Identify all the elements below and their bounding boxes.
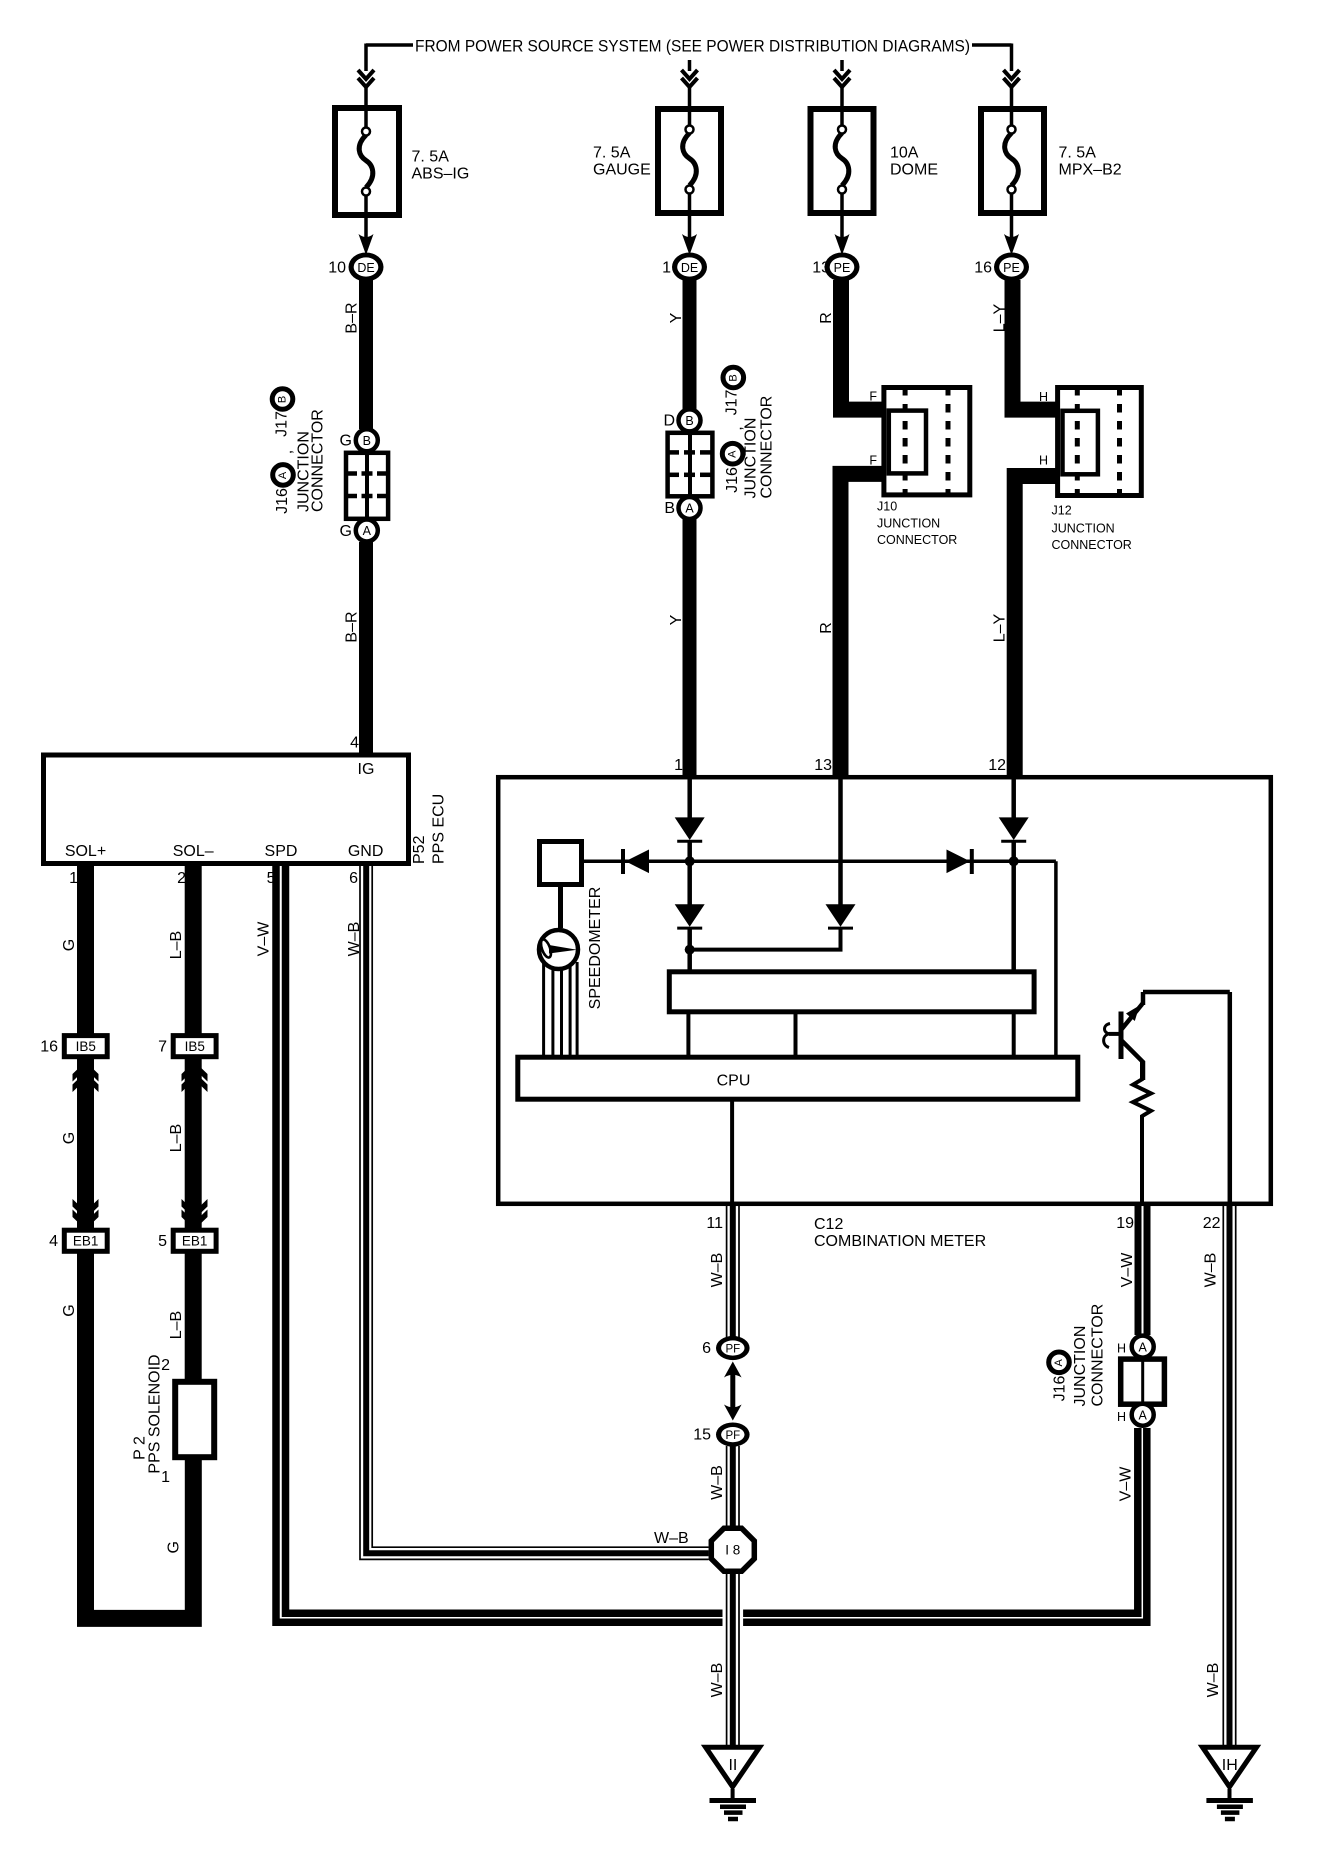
wire: pin 12 column from dot down to display rectangle (1011, 861, 1016, 970)
arrow into fuse GAUGE (682, 70, 698, 87)
arrow into fuse ABS-IG (358, 70, 374, 87)
speedometer dial (539, 884, 578, 969)
wire: power source header line left segment (366, 43, 413, 47)
svg-text:SPEEDOMETER: SPEEDOMETER (587, 887, 604, 1010)
diode D1 (pin 1 column) (675, 817, 705, 841)
connector PE pin 16 (974, 253, 1029, 282)
svg-text:PPS SOLENOID: PPS SOLENOID (147, 1354, 164, 1473)
svg-text:CONNECTOR: CONNECTOR (310, 409, 327, 512)
svg-text:H: H (1039, 453, 1048, 467)
svg-text:SOL–: SOL– (173, 843, 214, 860)
svg-text:16: 16 (974, 260, 992, 277)
node: junction dot bus/pin12 (1009, 856, 1019, 866)
svg-text:R: R (818, 312, 835, 324)
svg-text:B: B (363, 434, 371, 448)
svg-text:L–B: L–B (168, 931, 185, 959)
svg-text:J16: J16 (1052, 1376, 1069, 1402)
svg-text:R: R (818, 622, 835, 634)
svg-text:L–B: L–B (168, 1124, 185, 1152)
ground IH (1203, 1747, 1257, 1819)
resistor R (meter) (1133, 1062, 1151, 1123)
connector PE pin 13 (812, 253, 859, 282)
wire: D4 down and left to pin-1 column (690, 928, 841, 950)
combination meter C12 box (498, 777, 1271, 1204)
wire label W-B (above ground II) (709, 1663, 726, 1698)
node: C12 COMBINATION METER caption (814, 1216, 986, 1250)
svg-text:V–W: V–W (1118, 1466, 1135, 1502)
svg-text:J17: J17 (274, 411, 291, 437)
svg-text:W–B: W–B (1205, 1663, 1222, 1698)
diode D6 (points right) (947, 849, 972, 874)
svg-text:B–R: B–R (344, 611, 361, 642)
svg-text:7. 5A: 7. 5A (593, 145, 631, 162)
wire: arrow to fuse DOME (840, 85, 844, 107)
svg-text:G: G (340, 523, 352, 540)
svg-text:15: 15 (693, 1427, 711, 1444)
speedometer coil square (540, 842, 582, 885)
diode D3 (pin 1 column lower) (675, 861, 705, 950)
wire B-R: junction connector to ECU pin 4 (359, 542, 373, 754)
svg-text:J12: J12 (1052, 504, 1072, 518)
wire label L-B (below EB1) (168, 1311, 185, 1339)
wire W-B: ECU GND pin 6 to I8 (triple-line wire) (360, 861, 709, 1559)
svg-text:4: 4 (49, 1233, 58, 1250)
svg-text:11: 11 (706, 1215, 723, 1232)
svg-text:F: F (869, 390, 877, 404)
svg-text:IB5: IB5 (76, 1039, 96, 1054)
wire label Y lower (668, 614, 685, 625)
fuse 7.5A GAUGE (593, 109, 721, 213)
wire: drop to fuse DOME (840, 60, 844, 71)
junction connector J16 (A) right column (1117, 1336, 1164, 1426)
svg-text:1: 1 (662, 260, 671, 277)
svg-text:W–B: W–B (654, 1530, 689, 1547)
wire L-Y: J12 to meter pin 12, with jog (1015, 476, 1056, 777)
wire label G (between IB5 and EB1) (61, 1132, 78, 1144)
connector EB1 pin 4 (49, 1230, 107, 1251)
ground II (706, 1747, 760, 1819)
connector PF pin 6 (702, 1336, 750, 1360)
wire: meter pin 1 to diode D1 (687, 777, 692, 818)
arrow (female) below PF pin 6 (724, 1362, 742, 1378)
svg-text:W–B: W–B (709, 1253, 726, 1288)
wire label W-B (below meter pin 11) (709, 1253, 726, 1288)
wire Y: junction connector to meter pin 1 (683, 519, 697, 777)
wire V-W: ECU SPD pin 5 double wire inner run to right junction connector (286, 861, 1138, 1613)
P.2 PPS SOLENOID box (132, 1354, 215, 1485)
wire label W-B (below ECU GND) (346, 922, 363, 957)
svg-text:13: 13 (814, 757, 832, 774)
svg-text:JUNCTION: JUNCTION (877, 517, 940, 531)
node: SPEEDOMETER rotated label (587, 887, 604, 1010)
svg-text:B–R: B–R (344, 302, 361, 333)
wire: meter pin 12 to diode D2 (1011, 777, 1016, 818)
svg-text:L–Y: L–Y (992, 613, 1009, 642)
connector PF pin 15 (693, 1423, 749, 1447)
wire label G (SOL+ below ECU) (61, 939, 78, 951)
wire label W-B (below meter pin 22) (1203, 1253, 1220, 1288)
svg-text:Y: Y (668, 614, 685, 625)
diode D4 (pin 13 column) (826, 904, 856, 928)
svg-text:A: A (363, 524, 372, 538)
svg-text:F: F (869, 454, 877, 468)
svg-text:G: G (61, 1304, 78, 1316)
wire: fuse GAUGE to connector DE (688, 212, 692, 240)
junction connector J10 (869, 387, 969, 547)
svg-text:D: D (663, 413, 675, 430)
arrow into connector PE pin 16 (1004, 234, 1019, 255)
wire label L-B (between IB5 and EB1) (168, 1124, 185, 1152)
connector DE pin 1 (662, 253, 707, 282)
svg-text:J17: J17 (724, 390, 741, 416)
wire: resistor to meter pin 19 (1140, 1122, 1144, 1204)
svg-text:10: 10 (328, 260, 346, 277)
svg-text:12: 12 (988, 757, 1006, 774)
wire label B-R upper (344, 302, 361, 333)
wire label W-B (above ground IH) (1205, 1663, 1222, 1698)
svg-text:H: H (1117, 1410, 1126, 1424)
svg-text:I 8: I 8 (725, 1543, 740, 1558)
wire: fuse ABS-IG to connector DE (364, 214, 368, 240)
svg-text:PPS ECU: PPS ECU (431, 794, 448, 864)
wire: double V-W from meter pin 19 to junction connector (1138, 1206, 1147, 1335)
fuse 10A DOME (811, 109, 939, 213)
svg-text:19: 19 (1116, 1215, 1134, 1232)
wire label B-R lower (344, 611, 361, 642)
wire: drop to fuse ABS-IG (364, 44, 368, 72)
arrow into fuse DOME (834, 70, 850, 87)
wire: rectangle to CPU (right) (1012, 1014, 1016, 1056)
svg-text:DE: DE (357, 261, 374, 275)
svg-text:G: G (61, 939, 78, 951)
wire: D2 to bus (1011, 841, 1016, 861)
wire: meter pin 13 to diode D4 (838, 777, 843, 905)
svg-text:DE: DE (681, 261, 698, 275)
svg-text:CONNECTOR: CONNECTOR (759, 396, 776, 499)
wire: arrow to fuse ABS-IG (364, 85, 368, 106)
svg-text:FROM POWER SOURCE SYSTEM (SEE: FROM POWER SOURCE SYSTEM (SEE POWER DIST… (415, 37, 970, 56)
wire: drop to fuse GAUGE (688, 60, 692, 71)
arrow into connector DE pin 1 (682, 234, 697, 255)
svg-text:P52: P52 (411, 835, 428, 864)
svg-text:1: 1 (674, 757, 683, 774)
wire W-B: meter pin 11 to PF pin 6 (triple-line) (727, 1206, 739, 1339)
wire label G (solenoid pin 1 riser) (166, 1541, 183, 1553)
svg-text:B: B (664, 500, 675, 517)
svg-text:A: A (1139, 1408, 1148, 1422)
arrow pair (female) below IB5 pin 7 (182, 1062, 208, 1093)
node: J16(A),J17(B) rotated label (left) (272, 389, 327, 514)
svg-text:1: 1 (69, 870, 78, 887)
svg-text:10A: 10A (890, 145, 919, 162)
svg-text:II: II (728, 1757, 737, 1774)
wire label Y upper (668, 312, 685, 323)
arrow into fuse MPX-B2 (1004, 70, 1020, 87)
wire: drop to fuse MPX-B2 (1010, 44, 1014, 72)
CPU box (518, 1057, 1078, 1099)
connector I8 (octagon) (711, 1528, 754, 1571)
svg-text:A: A (685, 502, 694, 516)
svg-text:A: A (727, 450, 739, 458)
wire label W-B (above I8) (709, 1465, 726, 1500)
svg-text:J16: J16 (274, 488, 291, 514)
arrow (male) above PF pin 15 (724, 1405, 742, 1421)
svg-text:SOL+: SOL+ (65, 843, 106, 860)
wire: rectangle to CPU (middle) (794, 1014, 798, 1056)
svg-text:IG: IG (358, 761, 375, 778)
diode D2 (pin 12 column) (999, 817, 1029, 841)
wire R: J10 to meter pin 13, with jog (841, 474, 883, 777)
wire: horizontal bus from square (584, 860, 1056, 864)
svg-text:7. 5A: 7. 5A (412, 149, 450, 166)
wire: right rail down to meter pin 22 (1228, 992, 1233, 1204)
wire label V-W (below right junction connector) (1118, 1466, 1135, 1502)
arrow into connector DE pin 10 (359, 234, 374, 255)
display rectangle inside meter (669, 972, 1034, 1012)
svg-text:JUNCTION: JUNCTION (743, 418, 760, 499)
wire Y: DE to junction connector (upper) (683, 280, 697, 409)
svg-text:CPU: CPU (717, 1073, 751, 1090)
wire label R upper (818, 312, 835, 324)
svg-text:4: 4 (350, 735, 359, 752)
fuse 7.5A MPX-B2 (981, 109, 1122, 213)
wire label L-B (below ECU) (168, 931, 185, 959)
node: J16 (A) rotated label (1049, 1304, 1107, 1407)
wire: rectangle to CPU (left) (686, 1014, 690, 1056)
wire label L-Y upper (992, 303, 1009, 332)
wire W-B: meter pin 22 to ground IH (triple-line) (1223, 1206, 1235, 1746)
connector EB1 pin 5 (158, 1230, 216, 1251)
node: J16(A),J17(B) rotated label (right of second connector) (722, 367, 775, 498)
svg-text:16: 16 (40, 1039, 58, 1056)
svg-text:PE: PE (834, 261, 851, 275)
node: junction dot bus/pin1 (685, 856, 695, 866)
wire label V-W (below ECU SPD) (256, 921, 273, 957)
svg-text:7: 7 (158, 1039, 167, 1056)
svg-text:W–B: W–B (709, 1465, 726, 1500)
node: junction dot D3 output (685, 945, 695, 955)
arrow pair (male) above EB1 pin 4 (73, 1199, 99, 1230)
connector IB5 pin 16 (40, 1036, 107, 1057)
svg-text:GAUGE: GAUGE (593, 162, 651, 179)
wire label L-Y lower (992, 613, 1009, 642)
svg-text:B: B (727, 374, 739, 381)
wire: power source header line right segment (972, 43, 1012, 47)
wire: between PF connectors (730, 1370, 735, 1412)
svg-text:A: A (1053, 1358, 1065, 1366)
wire B-R: DE to junction connector (upper) (359, 280, 373, 429)
junction connector J12 (1039, 387, 1141, 552)
diode D5 (points left toward speedometer) (623, 849, 649, 874)
svg-text:JUNCTION: JUNCTION (1072, 1326, 1089, 1407)
svg-text:Y: Y (668, 312, 685, 323)
svg-text:H: H (1039, 390, 1048, 404)
wire: speedometer leads to CPU (5 lines) (544, 962, 578, 1056)
wire R: PE to J10 (upper), with jog (841, 280, 882, 410)
svg-text:B: B (685, 414, 693, 428)
svg-text:EB1: EB1 (73, 1234, 99, 1249)
svg-text:L–Y: L–Y (992, 303, 1009, 332)
wire: dot to display rectangle (687, 950, 692, 970)
svg-text:B: B (277, 396, 289, 403)
svg-text:H: H (1117, 1341, 1126, 1355)
junction connector J16/J17 (left column) (340, 429, 389, 541)
junction connector J16/J17 (second column) (663, 409, 712, 519)
svg-text:IH: IH (1222, 1757, 1238, 1774)
svg-text:G: G (166, 1541, 183, 1553)
wire: D1 to bus (687, 841, 692, 861)
svg-text:6: 6 (349, 870, 358, 887)
wire: fuse MPX-B2 to connector PE (1010, 212, 1014, 240)
svg-text:GND: GND (348, 843, 384, 860)
svg-text:PE: PE (1003, 261, 1020, 275)
svg-text:IB5: IB5 (185, 1039, 205, 1054)
svg-text:J16: J16 (724, 467, 741, 493)
svg-text:22: 22 (1203, 1215, 1221, 1232)
svg-text:W–B: W–B (709, 1663, 726, 1698)
svg-text:DOME: DOME (890, 162, 938, 179)
wire L-B: ECU SOL- pin 2 down to solenoid pin 2 (185, 862, 202, 1380)
transistor Q (meter output) (1104, 992, 1143, 1080)
arrow pair (male) above EB1 pin 5 (182, 1199, 208, 1230)
fuse 7.5A ABS-IG (335, 108, 469, 215)
svg-text:C12: C12 (814, 1216, 843, 1233)
svg-text:W–B: W–B (1203, 1253, 1220, 1288)
svg-text:A: A (277, 471, 289, 479)
svg-text:PF: PF (725, 1343, 740, 1355)
svg-text:V–W: V–W (256, 921, 273, 957)
svg-text:CONNECTOR: CONNECTOR (877, 533, 957, 547)
svg-text:A: A (1139, 1340, 1148, 1354)
svg-text:SPD: SPD (265, 843, 298, 860)
svg-text:L–B: L–B (168, 1311, 185, 1339)
svg-text:EB1: EB1 (182, 1234, 208, 1249)
svg-text:G: G (340, 433, 352, 450)
svg-text:COMBINATION METER: COMBINATION METER (814, 1233, 986, 1250)
wire: arrow to fuse MPX-B2 (1010, 85, 1014, 107)
wire G: ECU SOL+ pin 1 down, U-turn, up to solenoid pin 1 (86, 862, 194, 1618)
ECU P52 PPS ECU box (44, 735, 448, 888)
wire: arrow to fuse GAUGE (688, 85, 692, 107)
svg-text:J10: J10 (877, 500, 897, 514)
wire: bus right corner down to CPU (1054, 861, 1058, 1056)
wire V-W: ECU SPD pin 5 double wire outer run to right junction connector (276, 861, 1147, 1622)
svg-text:,: , (279, 450, 296, 454)
arrow into connector PE pin 13 (835, 234, 850, 255)
svg-text:CONNECTOR: CONNECTOR (1089, 1304, 1106, 1407)
wire L-Y: PE to J12 (upper), with jog (1013, 280, 1057, 410)
svg-text:MPX–B2: MPX–B2 (1059, 162, 1122, 179)
svg-text:ABS–IG: ABS–IG (412, 166, 470, 183)
svg-text:G: G (61, 1132, 78, 1144)
wire label R lower (818, 622, 835, 634)
svg-text:7. 5A: 7. 5A (1059, 145, 1097, 162)
wire W-B: PF pin 15 to I8 (triple-line) (727, 1446, 739, 1528)
connector DE pin 10 (328, 253, 383, 282)
svg-text:PF: PF (725, 1430, 740, 1442)
wire: CPU to meter pin 11 (730, 1099, 734, 1204)
svg-text:6: 6 (702, 1340, 711, 1357)
wire W-B: I8 down to ground II (triple-line, crosses V-W runs) (723, 1571, 744, 1746)
wire: fuse DOME to connector PE (840, 212, 844, 240)
wire: transistor emitter top rail (1143, 990, 1230, 995)
wire label V-W (below meter pin 19) (1119, 1252, 1136, 1288)
connector IB5 pin 7 (158, 1036, 216, 1057)
svg-text:13: 13 (812, 260, 830, 277)
arrow pair (female) below IB5 pin 16 (73, 1062, 99, 1093)
svg-text:V–W: V–W (1119, 1252, 1136, 1288)
wire label G (below EB1) (61, 1304, 78, 1316)
svg-text:5: 5 (158, 1233, 167, 1250)
svg-text:JUNCTION: JUNCTION (1052, 521, 1115, 535)
svg-text:CONNECTOR: CONNECTOR (1052, 538, 1132, 552)
